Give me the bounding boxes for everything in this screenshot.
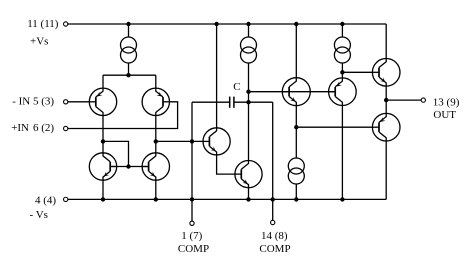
svg-text:+Vs: +Vs [30, 35, 48, 47]
junction Q1 collector [101, 139, 105, 143]
svg-text:C: C [233, 81, 240, 93]
terminal pin 14 COMP [271, 220, 275, 224]
svg-text:COMP: COMP [178, 243, 209, 255]
wire Q6 collector [248, 64, 250, 161]
transistor Q9 [372, 59, 400, 87]
junction diff emitters [126, 73, 130, 77]
wire -Vs rail [68, 198, 386, 200]
wire Q5 emitter to Q6 base [217, 155, 235, 174]
transistor Q5 [203, 128, 230, 155]
wire Q10 collector [385, 141, 387, 199]
capacitor C [229, 97, 231, 108]
transistor Q1 [89, 88, 116, 115]
terminal pin 6 +IN [64, 126, 68, 130]
transistor Q4 [142, 153, 169, 180]
svg-text:6 (2): 6 (2) [33, 122, 54, 134]
wire -IN to Q1 base [68, 101, 89, 103]
junction Q9 base node [340, 70, 344, 74]
junction COMP1/stage2 base [190, 139, 194, 143]
wire Q2 collector [155, 116, 157, 153]
wire Q2 emitter [155, 75, 157, 88]
wire Q8 collector [341, 106, 343, 200]
wire I1 top [128, 24, 130, 37]
svg-text:COMP: COMP [259, 243, 290, 255]
svg-text:14 (8): 14 (8) [261, 230, 288, 242]
current source I4 [288, 158, 304, 184]
junction Q3 emitter/-Vs [101, 197, 105, 201]
junction COMP1/-Vs rail [190, 197, 194, 201]
wire I4 bottom [295, 184, 297, 199]
wire Q9 base row [342, 71, 372, 73]
junction N2 cap [246, 100, 250, 104]
svg-text:+IN: +IN [11, 122, 29, 134]
wire I2 top [248, 24, 250, 37]
wire COMP1 riser [191, 102, 193, 221]
terminal pin 13 OUT [421, 98, 425, 102]
terminal pin 11 +Vs [64, 22, 68, 26]
current source I2 [241, 37, 257, 63]
wire diff emitter rail [103, 74, 156, 76]
wire Q1 collector [102, 116, 104, 153]
wire Q6 emitter [248, 188, 250, 200]
wire Q9 emitter [385, 86, 387, 113]
transistor Q2 [142, 88, 169, 115]
wire first stage output [156, 140, 203, 142]
junction Q4 emitter/-Vs [154, 197, 158, 201]
wire +IN to Q2 base [68, 102, 178, 129]
junction Q7 emitter/bias row [294, 125, 298, 129]
terminal pin 5 -IN [64, 100, 68, 104]
junction N2 driver base [246, 90, 250, 94]
transistor Q3 [89, 153, 116, 180]
wire Q7 collector [295, 24, 297, 78]
wire I3 to Q8 [341, 64, 343, 78]
transistor Q10 [372, 113, 400, 141]
junction COMP14/-Vs rail [271, 197, 275, 201]
wire Q4 emitter [155, 180, 157, 199]
wire COMP14 riser [272, 102, 274, 220]
wire cap right [234, 101, 273, 103]
junction +Vs/Q5 collector [214, 22, 218, 26]
svg-text:13 (9): 13 (9) [433, 96, 460, 108]
wire driver base row [249, 91, 336, 93]
svg-text:1 (7): 1 (7) [181, 230, 202, 242]
junction +Vs/I2 [246, 22, 250, 26]
wire Q7 emitter [295, 106, 297, 158]
wire Q9 collector [385, 24, 387, 59]
wire I3 top [341, 24, 343, 37]
terminal pin 1 COMP [190, 221, 194, 225]
wire Q5 collector [216, 24, 218, 128]
wire bias row [296, 126, 372, 128]
svg-text:- IN: - IN [12, 95, 30, 107]
current source I1 [121, 37, 137, 63]
terminal pin 4 -Vs [64, 197, 68, 201]
wire mirror base link [110, 166, 148, 168]
junction I4/-Vs [294, 197, 298, 201]
current source I3 [334, 37, 350, 63]
svg-text:5 (3): 5 (3) [33, 95, 54, 107]
junction Q2 collector [154, 139, 158, 143]
transistor Q7 [282, 78, 310, 106]
wire output [386, 99, 421, 101]
junction +Vs/I1 [126, 22, 130, 26]
wire Q3 emitter [102, 180, 104, 199]
junction +Vs/Q7 collector [294, 22, 298, 26]
junction Q8 collector/-Vs [340, 197, 344, 201]
junction Q6 emitter/-Vs [246, 197, 250, 201]
wire cap left [192, 101, 230, 103]
svg-text:- Vs: - Vs [30, 209, 48, 221]
wire I1 bottom [128, 63, 130, 75]
wire +Vs rail [68, 23, 386, 25]
svg-text:11 (11): 11 (11) [27, 18, 59, 30]
transistor Q6 [235, 161, 262, 188]
wire Q3 diode link [103, 141, 129, 166]
junction mirror bases [126, 164, 130, 168]
transistor Q8 [329, 78, 357, 106]
junction +Vs/I3 [340, 22, 344, 26]
svg-text:OUT: OUT [433, 109, 456, 121]
junction output node [384, 98, 388, 102]
wire Q1 emitter [102, 75, 104, 88]
svg-text:4 (4): 4 (4) [35, 194, 56, 206]
